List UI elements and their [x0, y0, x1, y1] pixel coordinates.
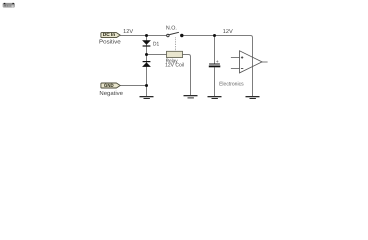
svg-text:DC In: DC In [103, 32, 115, 38]
svg-text:12V: 12V [123, 29, 133, 35]
svg-text:+: + [216, 60, 219, 65]
svg-text:N.O.: N.O. [166, 25, 177, 31]
svg-text:GND: GND [104, 83, 114, 89]
svg-text:D1: D1 [153, 41, 159, 47]
svg-text:Negative: Negative [99, 90, 123, 97]
svg-text:12V: 12V [223, 29, 233, 35]
svg-text:Positive: Positive [99, 39, 121, 46]
svg-text:Electronics: Electronics [219, 82, 244, 88]
svg-text:12V Coil: 12V Coil [165, 63, 184, 69]
